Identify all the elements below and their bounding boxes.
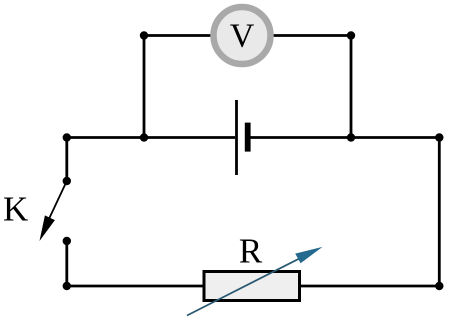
voltmeter U1 body bbox=[214, 7, 271, 64]
node C junction dot bbox=[140, 133, 148, 141]
rheostat arrow shaft bbox=[187, 257, 302, 315]
wire bottom-right (resistor to corner G) bbox=[300, 285, 440, 288]
wire middle-left (corner E to battery) bbox=[67, 136, 235, 139]
resistor R body bbox=[204, 272, 300, 301]
wire switch lower lead (switch bottom contact to corner H) bbox=[65, 241, 68, 286]
wire middle-right (battery to corner F) bbox=[251, 136, 440, 139]
switch K bottom contact dot bbox=[63, 237, 71, 245]
rheostat arrowhead bbox=[295, 247, 322, 263]
wire top-left (node A to voltmeter) bbox=[144, 34, 212, 37]
battery B1 negative plate (short thick) bbox=[245, 123, 251, 152]
svg-text:K: K bbox=[3, 190, 28, 229]
node E corner dot bbox=[63, 133, 71, 141]
wire right vertical branch (node B down to node D) bbox=[350, 36, 353, 138]
switch K lever arrowhead bbox=[40, 215, 55, 241]
wire bottom-left (corner H to resistor) bbox=[67, 285, 204, 288]
svg-text:R: R bbox=[239, 232, 263, 271]
battery B1 positive plate (long thin) bbox=[235, 100, 238, 175]
wire switch upper lead (corner E to switch top contact) bbox=[65, 138, 68, 182]
node D junction dot bbox=[347, 133, 355, 141]
node F corner dot bbox=[435, 133, 443, 141]
wire left vertical branch (node A down to node C) bbox=[143, 36, 146, 138]
svg-text:V: V bbox=[230, 18, 255, 55]
node B junction dot bbox=[347, 31, 355, 39]
node H corner dot bbox=[63, 282, 71, 290]
wire top-right (voltmeter to node B) bbox=[272, 34, 351, 37]
node A junction dot bbox=[140, 31, 148, 39]
switch K lever arm bbox=[48, 181, 67, 221]
wire right side vertical (corner F down to corner G) bbox=[438, 138, 441, 287]
switch K top contact dot bbox=[63, 177, 71, 185]
node G corner dot bbox=[435, 282, 443, 290]
